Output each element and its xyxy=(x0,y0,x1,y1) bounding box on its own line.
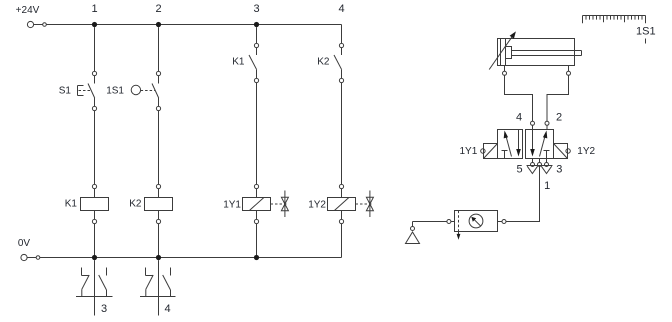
svg-text:K1: K1 xyxy=(232,57,245,68)
svg-text:4: 4 xyxy=(164,303,170,315)
terminal 0V xyxy=(21,254,27,260)
wire col1 rail to S1 xyxy=(94,27,96,71)
svg-text:3: 3 xyxy=(253,3,259,15)
wire col4 contact to 1Y2 coil xyxy=(341,83,343,185)
svg-text:1: 1 xyxy=(544,180,550,192)
contact K2 NO xyxy=(334,43,344,82)
cylinder piston rod xyxy=(512,51,582,56)
valve 1V right square xyxy=(526,130,554,159)
svg-text:+24V: +24V xyxy=(16,5,40,16)
pipe cylinder left to valve port 4 xyxy=(505,75,535,129)
compressed air source xyxy=(406,222,420,244)
valve right square arrow 1-2 xyxy=(540,131,548,157)
node top rail col3 xyxy=(254,22,259,27)
wire col2 coil to 0V rail xyxy=(158,224,160,258)
wire col3 coil to 0V rail xyxy=(256,224,258,258)
svg-text:2: 2 xyxy=(556,112,562,124)
node bottom rail col1 xyxy=(92,255,97,260)
svg-text:3: 3 xyxy=(556,164,562,176)
pipe valve port 1 to service unit xyxy=(506,167,540,222)
cylinder port right xyxy=(567,66,571,76)
valve left square arrow 1-4 xyxy=(504,131,512,157)
pushbutton S1 xyxy=(78,71,97,110)
svg-text:1Y2: 1Y2 xyxy=(577,146,595,157)
wire col2 1S1 to K2 coil xyxy=(158,111,160,185)
svg-text:5: 5 xyxy=(516,163,522,175)
valve pilot solenoid right xyxy=(554,144,571,159)
contact mirror K1 xyxy=(76,260,113,315)
svg-text:K2: K2 xyxy=(317,57,330,68)
wire col3 rail to K1 contact xyxy=(256,27,258,43)
valve port 3 stub xyxy=(545,159,549,167)
svg-text:0V: 0V xyxy=(18,238,31,249)
switch 1S1 xyxy=(131,71,160,110)
svg-text:K1: K1 xyxy=(65,199,78,210)
svg-text:1: 1 xyxy=(91,3,97,15)
svg-text:1Y1: 1Y1 xyxy=(223,200,241,211)
solenoid coil 1Y2 xyxy=(328,184,374,223)
cylinder port left xyxy=(503,66,507,76)
valve 1V left square xyxy=(498,130,523,159)
svg-text:K2: K2 xyxy=(129,199,142,210)
svg-text:4: 4 xyxy=(338,3,344,15)
wire col1 coil to 0V rail xyxy=(94,224,96,258)
node bottom rail col3 xyxy=(254,255,259,260)
solenoid coil 1Y1 xyxy=(243,184,289,223)
valve left square arrow 2-3 xyxy=(516,130,521,157)
pipe cylinder right to valve port 2 xyxy=(545,75,569,129)
svg-text:1Y2: 1Y2 xyxy=(308,200,326,211)
wire bottom rail xyxy=(40,257,342,259)
svg-text:S1: S1 xyxy=(59,86,72,97)
svg-text:1S1: 1S1 xyxy=(636,26,656,38)
valve right square blocked port 3 xyxy=(544,151,550,159)
silencer port 3 xyxy=(541,166,551,173)
cylinder cushion arrow xyxy=(489,31,516,69)
valve port 5 stub xyxy=(531,159,535,167)
service unit 0Z xyxy=(413,211,507,240)
wire col4 rail to K2 contact xyxy=(341,25,343,44)
svg-text:4: 4 xyxy=(516,112,522,124)
node bottom rail col2 xyxy=(156,255,161,260)
wire top rail xyxy=(46,24,341,26)
valve left square blocked port 5 xyxy=(502,151,508,159)
svg-text:1Y1: 1Y1 xyxy=(460,146,478,157)
wire col3 contact to 1Y1 coil xyxy=(256,83,258,185)
cylinder 1A body xyxy=(498,39,575,66)
relay coil K1 xyxy=(81,184,109,223)
wire col4 coil to 0V rail xyxy=(341,224,343,258)
node top rail col1 xyxy=(92,22,97,27)
wire col2 rail to 1S1 xyxy=(158,27,160,71)
valve right square arrow 4-5 xyxy=(530,130,535,157)
ruler scale 1S1 xyxy=(583,16,646,24)
svg-text:3: 3 xyxy=(101,303,107,315)
node top rail col2 xyxy=(156,22,161,27)
valve port 1 stub xyxy=(538,159,542,167)
relay coil K2 xyxy=(145,184,173,223)
sensor position mark 1S1 xyxy=(645,39,647,44)
terminal +24V xyxy=(27,21,33,27)
svg-text:1S1: 1S1 xyxy=(106,86,124,97)
valve pilot solenoid left xyxy=(481,144,498,159)
wire col1 S1 to K1 coil xyxy=(94,111,96,185)
silencer port 5 xyxy=(527,166,553,174)
svg-text:2: 2 xyxy=(155,3,161,15)
contact mirror K2 xyxy=(140,260,176,315)
contact K1 NO xyxy=(249,43,259,82)
